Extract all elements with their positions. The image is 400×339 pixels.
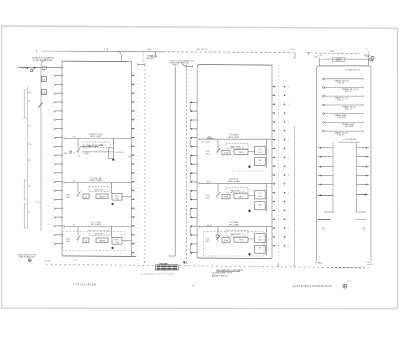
svg-text:2.5: 2.5 [48,154,51,156]
drop with ground blob [112,139,114,159]
N.O. contact label [207,137,214,139]
svg-text:EF-2 FAN: EF-2 FAN [229,223,239,226]
svg-text:LOAD SCHEDULE: LOAD SCHEDULE [18,256,36,259]
svg-text:1: 1 [116,161,117,163]
MSB feeder row 6 [323,122,325,124]
svg-text:4: 4 [149,102,150,104]
svg-text:PNL ‘E’: PNL ‘E’ [338,135,345,137]
drop with ground blob [111,227,113,238]
riser top header [138,64,145,66]
breaker stubs right of panel LP2 [272,86,275,88]
svg-text:4: 4 [288,157,289,159]
svg-text:3/4, 1#4 2.5: 3/4, 1#4 2.5 [197,49,208,51]
svg-text:5%: 5% [101,145,104,147]
riser C top header [186,66,193,68]
svg-text:(FUTURE): (FUTURE) [202,142,211,144]
svg-text:(2H) 4: (2H) 4 [172,65,179,67]
svg-text:PNL ‘A’: PNL ‘A’ [338,81,345,84]
spare conduit vertical [293,126,295,267]
main switch box on bus [42,66,46,69]
svg-text:4: 4 [149,155,150,157]
svg-text:UNION: UNION [99,197,106,199]
MSB title box [333,58,345,62]
svg-text:2.5: 2.5 [48,206,51,208]
svg-text:+ LTG PNL/4B: + LTG PNL/4B [343,139,357,141]
small circles below future section [323,228,325,230]
feeder elbow to future board [170,255,176,257]
rails with contacts [80,145,99,147]
svg-text:VOLTS: VOLTS [336,60,343,62]
svg-text:2/4: 2/4 [116,198,119,200]
riser bus B (dashed) [144,65,146,265]
heavy contact ticks [318,194,333,196]
svg-text:+↓%|: +↓%| [318,54,323,57]
dim line above MSB [321,58,369,60]
svg-text:AC-1 UNIT: AC-1 UNIT [91,135,102,138]
future distribution board box [156,265,179,270]
svg-text:AHU-2 FAN: AHU-2 FAN [228,180,240,183]
termination bars [318,219,331,221]
svg-text:D I S T R I B U T I O N S W: D I S T R I B U T I O N S W I T C H [293,285,332,288]
tag ticks and labels [28,92,31,94]
svg-text:2/4: 2/4 [116,242,119,244]
svg-text:MAG STRT—1: MAG STRT—1 [230,145,244,148]
svg-text:+ MOTOR +: + MOTOR + [94,233,106,235]
switchboard MSB outline [317,66,372,261]
svg-text:EF-1 FAN: EF-1 FAN [91,223,101,226]
panelboard LP1 outline [61,61,63,256]
faint dashed bus left of LP1 [52,70,54,250]
svg-text:40 4 a: 40 4 a [315,262,321,264]
svg-text:MAG STRT—1: MAG STRT—1 [230,189,244,192]
top edge darker [319,65,368,67]
service entry loop [41,60,47,66]
panelboard LP2 outline [196,67,198,258]
MSB feeder row 7 [323,130,325,132]
svg-text:NEXT AVE 40’: NEXT AVE 40’ [215,275,228,278]
svg-text:4: 4 [149,208,150,210]
disconnect slash on bus [38,103,43,108]
svg-text:2.5: 2.5 [48,136,51,138]
svg-text:MAG STRT—1: MAG STRT—1 [230,233,244,236]
svg-text:4: 4 [149,76,150,78]
svg-text:1-1/2”C↩: 1-1/2”C↩ [115,151,124,154]
breaker box LA-2 [42,90,47,95]
svg-text:2.5: 2.5 [48,224,51,226]
svg-text:& STATION 2-4”: & STATION 2-4” [346,68,361,71]
svg-text:4: 4 [149,235,150,237]
future board match line (dashed) [46,264,369,268]
riser bus A (faint dashed) [137,65,139,265]
svg-text:4: 4 [149,129,150,131]
darker dash segment [331,266,364,268]
dashed enclosure row3 LP2 [204,232,265,257]
breaker stubs left of panel LP1 [56,75,63,77]
drop with ground blob [111,183,113,194]
svg-text:PNL ‘B’: PNL ‘B’ [345,91,352,93]
svg-text:PNL ‘C’: PNL ‘C’ [338,100,345,102]
svg-text:L4: L4 [85,241,87,243]
svg-text:1⁄2⟨⟩: 1⁄2⟨⟩ [64,152,68,155]
svg-text:4: 4 [288,122,289,124]
bracket 1 [24,90,26,118]
svg-text:40 4 a: 40 4 a [45,261,52,263]
MSB feeder row 2 [323,87,325,89]
svg-text:40-4 a: 40-4 a [36,202,43,204]
svg-text:⟨40⟩: ⟨40⟩ [66,240,70,243]
bracket 3 [24,204,26,228]
dark blob right of box [183,261,185,263]
svg-text:L4: L4 [85,197,87,199]
svg-text:2.5: 2.5 [48,180,51,182]
wire: top feeder solid part [67,50,163,53]
svg-text:FUTURE: FUTURE [345,126,354,128]
svg-text:4: 4 [288,140,289,142]
wire: top feeder first segment [42,50,68,52]
svg-text:N.O.: N.O. [208,136,212,138]
bus: center vertical feeder [174,67,176,257]
motor circle and tag [69,151,72,154]
svg-text:+.%|: +.%| [313,56,318,58]
MSB future section U-structure [332,143,334,213]
svg-text:2-4”C: 2-4”C [330,51,336,53]
riser bus C (dashed, panel LP2) [186,65,188,266]
wire: feeder drop into panel LP1 [118,51,122,61]
svg-text:2.5: 2.5 [48,93,51,95]
svg-text:+5%|: +5%| [147,49,152,51]
dashed enclosure row1 LP2 [232,170,265,172]
MSB feeder row 4 [323,104,325,106]
svg-text:+5%|: +5%| [365,56,370,58]
breaker hooks left of panel LP2 [190,101,197,103]
svg-text:PNL ‘D’: PNL ‘D’ [345,109,352,111]
coil loop [108,148,110,159]
pilot circle row3 LP2 [216,235,219,238]
svg-text:UNION: UNION [99,241,106,243]
MSB feeder row 3 [323,95,325,97]
svg-text:+↓%: +↓% [290,48,294,51]
svg-text:4: 4 [288,246,289,248]
wire: service tap line into LP1 [18,67,63,69]
future section cross ticks [318,147,333,149]
arrow leader to riser C [182,64,186,66]
MSB feeder row 1 [323,78,325,80]
north symbol [28,259,31,262]
wire: top feeder dashed part [163,51,294,54]
svg-text:+ MOTOR +: + MOTOR + [94,189,106,191]
svg-text:AHU-1 FAN: AHU-1 FAN [90,179,102,182]
svg-text:T Y P I C A L P L A N: T Y P I C A L P L A N [73,284,96,287]
svg-text:⟨40⟩: ⟨40⟩ [206,240,210,243]
svg-text:4: 4 [149,182,150,184]
CT circle under tap [30,69,33,72]
svg-text:4: 4 [288,210,289,212]
svg-text:4”C-3-350 MCM & 1#1/0 G (FUTUR: 4”C-3-350 MCM & 1#1/0 G (FUTURE) [140,273,174,275]
svg-text:15%: 15% [347,281,351,283]
svg-text:4: 4 [288,193,289,195]
riser bus D (dashed) [278,65,280,267]
breaker stubs right of panel LP1 [132,75,135,77]
fuse marks on tap [22,67,24,69]
svg-text:AC-2 UNIT: AC-2 UNIT [229,136,240,139]
stub to right edge [128,155,132,157]
svg-text:4: 4 [288,87,289,89]
bus: left sub-feed bus [40,64,42,231]
svg-text:2.5: 2.5 [48,110,51,112]
bracket 2 [24,180,26,200]
svg-text:⟨40⟩: ⟨40⟩ [206,196,210,199]
svg-text:FUTURE: FUTURE [338,117,347,119]
svg-text:⟨40⟩: ⟨40⟩ [66,196,70,199]
dashed enclosure row3 LP1 [63,231,125,250]
tee symbol on feeder [307,51,311,53]
svg-text:(1) FREQUENT DUTY: (1) FREQUENT DUTY [212,273,233,275]
wire: service dashed run [315,52,360,54]
tag column vertical [27,86,29,229]
wire: feeder drop to riser bus [142,52,144,63]
svg-text:⟨40⟩: ⟨40⟩ [206,152,210,155]
svg-text:4: 4 [288,104,289,106]
future section bottom elbows [324,211,335,213]
svg-text:4: 4 [288,175,289,177]
detail bubble [343,284,347,288]
breaker box LA-1 [42,77,47,82]
svg-text:(N) SHT 7: (N) SHT 7 [146,58,156,60]
svg-text:4: 4 [288,228,289,230]
MSB feeder row 5 [323,113,325,115]
